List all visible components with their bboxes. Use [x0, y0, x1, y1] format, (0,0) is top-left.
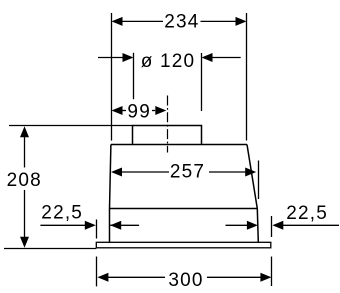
body right slanted edge: [247, 145, 258, 243]
dimension 99: [122, 110, 155, 112]
svg-text:300: 300: [168, 270, 203, 291]
dimension 257: [122, 161, 259, 200]
svg-text:99: 99: [127, 101, 151, 122]
mounting flange plate: [96, 242, 270, 248]
svg-text:208: 208: [7, 170, 42, 191]
hood body outline: [110, 126, 259, 243]
svg-text:ø 120: ø 120: [141, 51, 196, 72]
dimension 300: [108, 276, 261, 278]
svg-text:234: 234: [164, 11, 199, 32]
center line (dash-dot): [167, 96, 169, 153]
svg-text:257: 257: [170, 162, 205, 183]
dimension 234: [112, 13, 247, 141]
svg-text:22,5: 22,5: [286, 203, 328, 224]
body top edge: [111, 144, 247, 146]
dimension 22,5 right: [226, 216, 340, 286]
ceiling reference line bottom-left: [4, 248, 96, 250]
duct collar: [133, 126, 202, 145]
top reference line to duct: [9, 125, 133, 127]
body left wall: [110, 145, 111, 243]
dimension diameter 120: [98, 53, 241, 111]
dimension 22,5 left: [40, 220, 139, 287]
body internal seam line: [110, 208, 258, 210]
dimension 208: [24, 136, 26, 238]
svg-text:22,5: 22,5: [41, 203, 83, 224]
